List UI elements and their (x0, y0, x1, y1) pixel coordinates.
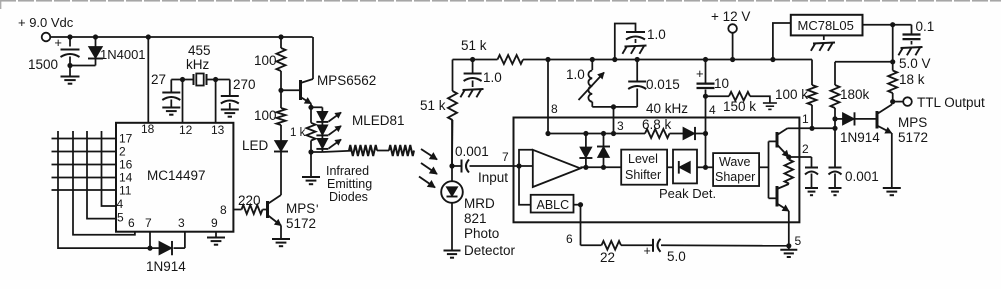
svg-text:12: 12 (179, 123, 193, 137)
svg-text:LED: LED (242, 138, 269, 153)
wire matrix column 4 to pin4 (102, 131, 117, 206)
wire ABLC out (574, 204, 581, 206)
light arrow 2 (421, 163, 437, 174)
svg-text:Emitting: Emitting (327, 177, 372, 191)
wire 5V to 180k (835, 61, 893, 63)
ground slanted C1.0 mid (622, 46, 646, 54)
ground Q5 (883, 187, 901, 189)
junction +12 rail (730, 57, 735, 62)
svg-text:1N4001: 1N4001 (100, 47, 146, 62)
emission arrow 3 (329, 140, 341, 149)
ground C27 (162, 107, 180, 109)
svg-text:5.0: 5.0 (667, 249, 686, 264)
capacitor pin2 (805, 167, 818, 169)
wire pin 12 drop (182, 80, 184, 123)
transistor Q4 lower (776, 186, 779, 207)
resistor 100 upper (277, 48, 286, 71)
svg-text:1 k: 1 k (290, 127, 306, 139)
wire matrix row pin16 (52, 164, 117, 166)
svg-text:4: 4 (117, 197, 124, 211)
wire rail corner to Q2 collector (312, 37, 314, 79)
junction ABLC out (578, 202, 583, 207)
wire diode bottom to cap bottom (70, 65, 96, 67)
junction regulator tap (770, 57, 775, 62)
svg-text:5172: 5172 (286, 216, 316, 231)
junction input internal (516, 163, 521, 168)
junction pin8 rail (545, 57, 550, 62)
svg-text:18 k: 18 k (899, 72, 925, 87)
wire matrix row pin14 (52, 177, 117, 179)
svg-text:27: 27 (151, 72, 166, 87)
svg-text:MLED81: MLED81 (352, 113, 405, 128)
svg-text:+: + (696, 66, 704, 81)
ground slanted C0.1 (898, 47, 922, 55)
svg-text:11: 11 (119, 184, 132, 198)
svg-text:0.015: 0.015 (646, 77, 680, 92)
svg-text:821: 821 (464, 211, 487, 226)
peak detector box (673, 150, 697, 184)
junction Q2 base node (278, 88, 283, 93)
svg-text:MC14497: MC14497 (147, 168, 206, 183)
svg-text:22: 22 (600, 250, 615, 265)
svg-text:+: + (644, 244, 651, 258)
wire +12 drop (732, 33, 734, 60)
junction rail 100 (278, 34, 283, 39)
junction C1.0 left (470, 57, 475, 62)
junction C1500 (67, 34, 72, 39)
wire to wave shaper (706, 166, 714, 168)
svg-text:kHz: kHz (186, 57, 209, 72)
capacitor 0.015 (636, 60, 638, 81)
wire pin4 riser (705, 96, 707, 133)
svg-text:1N914: 1N914 (840, 130, 880, 145)
wire pin 13 drop (215, 80, 217, 123)
emission arrow 1 (329, 113, 341, 122)
transistor Q1 MPS5172 (266, 201, 269, 218)
diode MLED81 D3 (321, 135, 323, 138)
svg-text:Diodes: Diodes (329, 190, 368, 204)
wire feedback to amp (519, 150, 533, 166)
wire pin7 stub (149, 232, 151, 248)
resistor 100 lower (277, 108, 286, 125)
amplifier triangle (533, 150, 581, 187)
svg-text:8: 8 (551, 102, 558, 116)
svg-text:3: 3 (178, 216, 185, 230)
svg-text:0.1: 0.1 (916, 19, 935, 34)
capacitor 0.1 (911, 25, 913, 34)
wire 5V vertical (892, 25, 894, 71)
svg-text:180k: 180k (840, 87, 870, 102)
svg-text:9: 9 (211, 216, 218, 230)
junction 1N4001 top (93, 34, 98, 39)
wire pin2 cap drop (811, 157, 813, 167)
svg-text:0.001: 0.001 (455, 144, 489, 159)
wire chain bottom link (311, 151, 322, 153)
wire pin6 drop (580, 205, 582, 246)
junction pin4 rail (703, 57, 708, 62)
wire internal top line (548, 133, 645, 135)
svg-text:51 k: 51 k (420, 98, 446, 113)
junction pin1 180k (832, 126, 837, 131)
top border line (0, 0, 1001, 2)
wire light path middle (377, 150, 389, 152)
wire Q3 collector to pin1 (788, 127, 800, 129)
wire matrix row pin2 (52, 151, 117, 153)
svg-text:14: 14 (119, 171, 133, 185)
junction 1N914 tee (832, 116, 837, 121)
wave shaper box (713, 153, 759, 186)
junction tank rail L (590, 57, 595, 62)
ground C1500 (69, 66, 71, 77)
junction LED chain top (308, 105, 313, 110)
wire WS out (759, 166, 768, 168)
svg-text:5172: 5172 (898, 130, 928, 145)
junction pin5 node (786, 243, 791, 248)
svg-text:2: 2 (802, 142, 809, 156)
svg-text:Infrared: Infrared (326, 164, 369, 178)
junction TTL node (890, 99, 895, 104)
diode MLED81 D2 (321, 122, 323, 125)
svg-text:Peak Det.: Peak Det. (659, 186, 716, 201)
ground pin9 (207, 237, 225, 239)
junction pin1 100k (809, 126, 814, 131)
capacitor 5.0 (652, 239, 654, 252)
wire matrix column 3 to pin5 (87, 131, 116, 219)
svg-text:6: 6 (566, 232, 573, 246)
wire mid rail (523, 59, 812, 61)
diode MLED81 D1 (321, 107, 323, 111)
svg-text:16: 16 (119, 158, 133, 172)
wire matrix column 2 to pin6 (73, 131, 135, 235)
wire pin6 external (581, 244, 602, 246)
ground pin5 (788, 246, 790, 250)
ground 150k (763, 102, 777, 104)
junction pin18 rail (146, 34, 151, 39)
wire matrix column 1 to pin7 net (58, 131, 150, 248)
junction pin3 internal (611, 131, 616, 136)
capacitor 10 (705, 60, 707, 83)
wire LS to peak det (667, 166, 673, 168)
junction 150k node (703, 94, 708, 99)
junction 5V to 180k (890, 59, 895, 64)
wire Q4 emitter pin5 (788, 211, 790, 246)
junction internal top line (545, 131, 550, 136)
svg-text:7: 7 (502, 150, 509, 164)
wire Q5 emitter to ground (891, 133, 893, 188)
light arrow 3 (419, 177, 435, 188)
resistor 22 (602, 241, 622, 250)
svg-text:+: + (54, 35, 62, 50)
svg-text:1.0: 1.0 (566, 67, 585, 82)
light arrow 1 (421, 149, 437, 160)
wire pin 2 out (789, 156, 812, 158)
wire output base line (768, 141, 770, 198)
svg-text:Shaper: Shaper (715, 170, 755, 184)
svg-text:': ' (316, 202, 318, 217)
svg-text:40 kHz: 40 kHz (646, 101, 688, 116)
terminal +9V (42, 33, 51, 42)
svg-text:Level: Level (628, 152, 658, 166)
svg-text:MRD: MRD (464, 196, 495, 211)
wire pin 18 drop (147, 37, 149, 123)
wire Q2 emitter down (310, 104, 312, 108)
junction pin7 node (147, 246, 152, 251)
wire regulator out (863, 24, 912, 26)
wire 150k to ground (750, 96, 770, 103)
transistor Q2 MPS6562 (299, 80, 302, 100)
wire matrix row pin17 (52, 138, 117, 140)
svg-text:100: 100 (254, 108, 277, 123)
svg-text:2: 2 (119, 145, 126, 159)
svg-text:7: 7 (145, 216, 152, 230)
svg-text:Photo: Photo (464, 226, 499, 241)
photodiode MRD821 (451, 120, 453, 182)
svg-text:MPS: MPS (286, 201, 315, 216)
pin 8 drop (547, 60, 549, 134)
svg-text:5: 5 (795, 234, 802, 248)
svg-text:270: 270 (233, 77, 256, 92)
svg-text:6: 6 (128, 216, 135, 230)
svg-text:10: 10 (714, 76, 729, 91)
wire TTL stub (893, 101, 904, 103)
wire 180k drop (834, 62, 836, 85)
junction peak det node (703, 165, 708, 170)
wire pin9 stub (215, 232, 217, 238)
inductor arrow (579, 73, 605, 101)
op-amp U2 receiver box (514, 118, 800, 223)
svg-text:100: 100 (254, 53, 277, 68)
ground MRD821 (444, 250, 461, 252)
capacitor 1.0 left (472, 60, 474, 73)
svg-text:17: 17 (119, 132, 133, 146)
wire top rail +9V (51, 36, 313, 38)
svg-text:MC78L05: MC78L05 (798, 18, 854, 33)
svg-text:1: 1 (802, 112, 809, 126)
svg-text:455: 455 (188, 43, 211, 58)
svg-text:0.001: 0.001 (845, 169, 879, 184)
regulator U3 MC78L05 (791, 15, 863, 36)
ground LED chain (302, 176, 320, 178)
wire Q4 collector to resistor (788, 183, 790, 186)
svg-text:3: 3 (617, 119, 624, 133)
op-amp U1 MC14497 box (116, 123, 233, 232)
wire 6.8k to diode (670, 133, 684, 135)
junction crystal left (180, 77, 185, 82)
resistor internal (785, 160, 794, 184)
capacitor 0.001 out (834, 128, 836, 166)
diode 1N4001 (95, 37, 97, 47)
svg-text:5.0 V: 5.0 V (899, 56, 931, 71)
wire Q1 collector to LED (280, 152, 282, 196)
level shifter box (621, 150, 667, 185)
junction 5V node (890, 22, 895, 27)
junction tank bottom (611, 104, 616, 109)
wire Q2 base (281, 89, 300, 91)
svg-text:MPS: MPS (898, 115, 927, 130)
wire mid rail left (453, 59, 498, 61)
svg-text:Wave: Wave (719, 155, 751, 169)
capacitor 1500 (69, 37, 71, 47)
wire tank bottom (592, 106, 637, 108)
svg-text:18: 18 (141, 122, 155, 136)
wire peak det out (697, 166, 706, 168)
svg-text:5: 5 (117, 211, 124, 225)
junction pin4 internal (703, 131, 708, 136)
svg-text:51 k: 51 k (461, 38, 487, 53)
ground slanted regulator (823, 35, 825, 40)
svg-text:13: 13 (211, 123, 225, 137)
resistor 150k (729, 92, 750, 101)
wire chain top link (311, 106, 322, 108)
svg-text:TTL Output: TTL Output (917, 95, 985, 110)
svg-text:MPS6562: MPS6562 (317, 73, 376, 88)
transistor Q5 MPS5172 output (876, 111, 879, 129)
ABLC box (531, 195, 574, 213)
light squiggle 2 (389, 145, 414, 156)
wire to regulator (773, 23, 791, 60)
junction crystal right (213, 77, 218, 82)
svg-text:150 k: 150 k (723, 99, 756, 114)
wire matrix row pin11 (52, 189, 117, 191)
svg-text:1N914: 1N914 (146, 259, 186, 274)
svg-text:Shifter: Shifter (625, 168, 661, 182)
wire Q5 collector (891, 102, 894, 105)
svg-text:1500: 1500 (28, 57, 58, 72)
svg-text:1.0: 1.0 (483, 70, 502, 85)
ground 0.001 out (829, 187, 842, 189)
wire Q1 emitter to ground (280, 226, 282, 240)
svg-text:4: 4 (709, 103, 716, 117)
capacitor 1.0 bypass hook (615, 24, 636, 60)
junction Q3 emitter node (786, 154, 791, 159)
svg-text:Detector: Detector (464, 243, 516, 258)
light squiggle 1 (349, 145, 377, 156)
svg-text:ABLC: ABLC (537, 198, 570, 212)
transistor Q3 upper (776, 132, 779, 148)
junction 0.015 rail (635, 57, 640, 62)
emission arrow 2 (329, 126, 341, 135)
terminal TTL output (903, 97, 912, 106)
ground Q1 (272, 238, 290, 240)
diode 1N914 left (150, 247, 159, 249)
svg-text:8: 8 (220, 203, 227, 217)
wire to ABLC (519, 166, 531, 205)
svg-text:+ 9.0 Vdc: + 9.0 Vdc (18, 15, 74, 30)
clamp diode D1 (583, 131, 588, 136)
ground slanted C1.0 left (460, 89, 483, 97)
wire pin3 stub (184, 232, 186, 248)
wire cap to pin5 (661, 244, 789, 247)
junction input node (449, 163, 454, 168)
diode after 6.8k (683, 127, 695, 139)
diode peak det (679, 161, 691, 173)
junction hook rail (612, 57, 617, 62)
wire light path start (322, 151, 351, 152)
wire pin 3 riser (613, 107, 615, 134)
wire 22 to cap (621, 244, 653, 246)
clamp diode D2 (601, 131, 606, 136)
wire chain to ground (310, 152, 312, 177)
diode 1N914 right (835, 118, 843, 120)
svg-text:Input: Input (478, 170, 508, 185)
svg-text:+ 12 V: + 12 V (711, 9, 750, 24)
wire pin1 line (799, 127, 835, 129)
junction LED chain bottom (308, 149, 313, 154)
wire 150k (706, 95, 730, 97)
junction C1500 bottom (67, 63, 72, 68)
svg-text:100 k: 100 k (775, 87, 808, 102)
wire amp output line (580, 166, 621, 168)
wire pin4 to peak det node (705, 134, 707, 168)
ground pin2 cap (805, 187, 818, 189)
ground C270 (221, 109, 239, 111)
svg-text:1.0: 1.0 (647, 27, 666, 42)
terminal +12V (728, 24, 737, 33)
